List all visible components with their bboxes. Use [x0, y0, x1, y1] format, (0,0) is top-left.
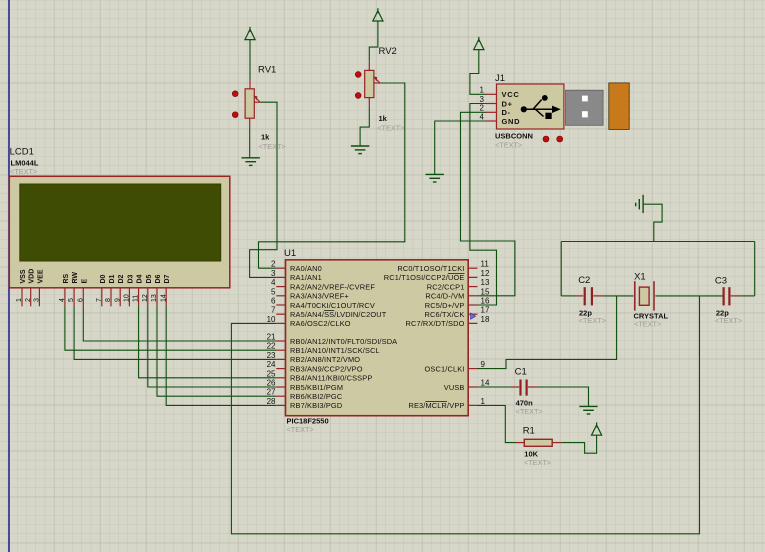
svg-text:9: 9 — [481, 360, 486, 369]
svg-text:C3: C3 — [715, 276, 727, 287]
svg-text:6: 6 — [271, 297, 276, 306]
svg-text:RC6/TX/CK: RC6/TX/CK — [425, 310, 465, 319]
svg-text:11: 11 — [133, 295, 140, 302]
svg-text:D4: D4 — [137, 274, 144, 283]
wire crystal to U1 OSC1 — [477, 296, 616, 369]
svg-text:D2: D2 — [118, 274, 125, 283]
LCD pin stub 11 — [138, 288, 140, 307]
svg-text:RB4/AN11/KBI0/CSSPP: RB4/AN11/KBI0/CSSPP — [290, 374, 372, 383]
LCD pin stub 7 — [101, 288, 103, 307]
svg-text:4: 4 — [271, 278, 276, 287]
svg-text:D5: D5 — [146, 274, 153, 283]
svg-text:RB7/KBI3/PGD: RB7/KBI3/PGD — [290, 401, 342, 410]
svg-text:RC0/T1OSO/T1CKI: RC0/T1OSO/T1CKI — [397, 264, 464, 273]
svg-text:RA1/AN1: RA1/AN1 — [290, 273, 322, 282]
wire ground jog to top rail — [643, 204, 662, 241]
svg-text:RB2/AN8/INT2/VMO: RB2/AN8/INT2/VMO — [290, 355, 360, 364]
svg-text:<TEXT>: <TEXT> — [715, 316, 742, 325]
crystal X1 — [635, 281, 654, 310]
U1 pin 15 RC4/D-/VM — [468, 295, 477, 297]
U1 pin 26 RB5/KBI1/PGM — [276, 386, 285, 388]
wire RV2 wiper to U1 RA0 — [259, 83, 405, 268]
C2 left pin stub — [575, 295, 583, 297]
capacitor C1 — [521, 380, 527, 396]
LCD pin stub 1 — [21, 288, 23, 307]
wire U1 VUSB to C1 — [477, 386, 511, 388]
svg-text:1: 1 — [481, 397, 486, 406]
C1 left pin stub — [511, 386, 519, 388]
U1 pin 7 RA5/AN4/SS/LVDIN/C2OUT — [276, 313, 285, 315]
LCD LCD1 body — [9, 176, 230, 287]
svg-text:VEE: VEE — [37, 269, 44, 283]
svg-text:3: 3 — [34, 298, 41, 302]
svg-text:RA2/AN2/VREF-/CVREF: RA2/AN2/VREF-/CVREF — [290, 282, 375, 291]
U1 pin 21 RB0/AN12/INT0/FLT0/SDI/SDA — [276, 340, 285, 342]
J1 red dots — [543, 136, 549, 142]
svg-text:13: 13 — [151, 294, 158, 302]
LCD screen — [20, 184, 221, 261]
U1 pin 27 RB6/KBI2/PGC — [276, 395, 285, 397]
svg-text:RA6/OSC2/CLKO: RA6/OSC2/CLKO — [290, 319, 351, 328]
RV2 wiper pin stub — [374, 82, 381, 84]
LCD pin stub 5 — [73, 288, 75, 307]
svg-text:22: 22 — [267, 342, 276, 351]
svg-text:23: 23 — [267, 351, 276, 360]
wire crystal top rail — [561, 241, 755, 243]
svg-text:7: 7 — [96, 298, 103, 302]
LCD pin stub 3 — [38, 288, 40, 307]
svg-text:D3: D3 — [127, 274, 134, 283]
svg-text:27: 27 — [267, 388, 276, 397]
LCD pin stub 9 — [119, 288, 121, 307]
wire to C2 — [561, 295, 575, 297]
wire LCD D7 to U1 RB7 — [166, 306, 276, 405]
wire RV1 wiper to U1 RA1 — [250, 102, 277, 277]
LCD pin stub 10 — [128, 288, 130, 307]
connector J1 body — [497, 84, 564, 129]
svg-text:D+: D+ — [502, 99, 513, 108]
svg-text:9: 9 — [114, 298, 121, 302]
wire C3 to right drop — [740, 295, 755, 297]
U1 pin 5 RA3/AN3/VREF+ — [276, 295, 285, 297]
U1 pin 24 RB3/AN9/CCP2/VPO — [276, 368, 285, 370]
wire LCD E to U1 RB0 — [83, 306, 276, 341]
svg-text:<TEXT>: <TEXT> — [259, 142, 286, 151]
svg-text:1: 1 — [16, 298, 23, 302]
svg-text:26: 26 — [267, 379, 276, 388]
U1 pin 10 RA6/OSC2/CLKO — [276, 322, 285, 324]
RV1 wiper arrow — [255, 96, 260, 102]
svg-text:15: 15 — [481, 287, 490, 296]
U1 pin 4 RA2/AN2/VREF-/CVREF — [276, 286, 285, 288]
svg-text:C1: C1 — [515, 367, 527, 378]
svg-text:RW: RW — [72, 272, 79, 284]
svg-text:7: 7 — [271, 306, 276, 315]
RV2 terminal dots — [355, 72, 361, 78]
RV1 wiper pin stub — [254, 101, 260, 103]
power arrow above RV2 — [373, 8, 383, 21]
svg-text:RB3/AN9/CCP2/VPO: RB3/AN9/CCP2/VPO — [290, 364, 363, 373]
svg-text:D7: D7 — [164, 274, 171, 283]
U1 pin 13 RC2/CCP1 — [468, 286, 477, 288]
svg-text:E: E — [81, 279, 88, 284]
wire LCD RW to U1 RB2 — [74, 306, 276, 359]
svg-text:RC4/D-/VM: RC4/D-/VM — [425, 292, 464, 301]
rotated ground near top rail — [636, 195, 643, 213]
ground below RV1 — [242, 158, 260, 166]
svg-text:<TEXT>: <TEXT> — [377, 124, 404, 133]
svg-text:RA0/AN0: RA0/AN0 — [290, 264, 322, 273]
LCD pin stub 4 — [64, 288, 66, 307]
capacitor C2 — [585, 287, 592, 305]
wire LCD D4 to U1 RB4 — [139, 306, 277, 378]
RV1 top pin stub — [249, 80, 251, 89]
wire C1 to ground — [537, 387, 589, 406]
wire RV1 top — [249, 40, 251, 80]
svg-text:RB1/AN10/INT1/SCK/SCL: RB1/AN10/INT1/SCK/SCL — [290, 346, 380, 355]
svg-text:<TEXT>: <TEXT> — [495, 140, 522, 149]
svg-text:<TEXT>: <TEXT> — [10, 167, 37, 176]
svg-text:<TEXT>: <TEXT> — [516, 407, 543, 416]
U1 pin 28 RB7/KBI3/PGD — [276, 404, 285, 406]
svg-text:D0: D0 — [100, 274, 107, 283]
LCD pin stub 2 — [30, 288, 32, 307]
LCD pin stub 13 — [156, 288, 158, 307]
LCD pin stub 12 — [147, 288, 149, 307]
U1 pin 17 RC6/TX/CK — [468, 313, 477, 315]
svg-text:D6: D6 — [155, 274, 162, 283]
svg-text:11: 11 — [481, 260, 490, 269]
RV2 top pin stub — [368, 61, 370, 70]
svg-text:<TEXT>: <TEXT> — [524, 458, 551, 467]
svg-text:5: 5 — [68, 298, 75, 302]
svg-text:RA3/AN3/VREF+: RA3/AN3/VREF+ — [290, 292, 349, 301]
potentiometer RV2 body — [365, 70, 374, 97]
svg-text:RB6/KBI2/PGC: RB6/KBI2/PGC — [290, 392, 343, 401]
U1 pin 16 RC5/D+/VP — [468, 304, 477, 306]
U1 pin 9 OSC1/CLKI — [468, 368, 477, 370]
svg-text:J1: J1 — [495, 73, 505, 84]
svg-text:RE3/MCLR/VPP: RE3/MCLR/VPP — [408, 401, 464, 410]
svg-text:2: 2 — [480, 104, 485, 113]
U1 pin 11 RC0/T1OSO/T1CKI — [468, 267, 477, 269]
svg-text:VUSB: VUSB — [444, 383, 465, 392]
svg-text:10: 10 — [267, 315, 276, 324]
RV1 bottom pin stub — [249, 118, 251, 129]
potentiometer RV1 body — [245, 89, 254, 118]
wire crystal to U1 OSC2 (bottom run) — [231, 296, 699, 534]
C2 right pin stub — [593, 295, 603, 297]
svg-text:VSS: VSS — [20, 269, 27, 283]
svg-text:25: 25 — [267, 369, 276, 378]
svg-text:3: 3 — [271, 269, 276, 278]
svg-text:U1: U1 — [284, 248, 296, 259]
svg-text:14: 14 — [160, 294, 167, 302]
RV1 terminal dots — [232, 91, 238, 97]
wire RV2 top — [369, 21, 378, 61]
blue marker on U1 pin 17 — [471, 313, 476, 319]
svg-text:13: 13 — [481, 278, 490, 287]
power arrow above J1 VCC — [474, 37, 484, 50]
sheet border (blue) — [8, 0, 10, 552]
svg-text:8: 8 — [105, 298, 112, 302]
USB metal shell — [566, 90, 604, 125]
J1 pin stub 1 — [486, 93, 497, 95]
wire J1 GND to ground — [435, 121, 486, 174]
svg-text:10: 10 — [124, 294, 131, 302]
wire LCD D6 to U1 RB6 — [157, 306, 276, 396]
svg-text:5: 5 — [271, 287, 276, 296]
svg-text:D1: D1 — [109, 274, 116, 283]
U1 pin 23 RB2/AN8/INT2/VMO — [276, 358, 285, 360]
svg-text:17: 17 — [481, 306, 490, 315]
svg-text:GND: GND — [502, 117, 521, 126]
microcontroller U1 body — [286, 260, 469, 416]
svg-text:16: 16 — [481, 297, 490, 306]
LCD pin stub 6 — [82, 288, 84, 307]
wire top rail left drop — [560, 242, 562, 296]
wire RV1 to ground — [249, 130, 251, 158]
ground below RV2 — [351, 146, 369, 154]
USB trident symbol — [527, 100, 553, 117]
wire LCD D5 to U1 RB5 — [148, 306, 276, 387]
resistor R1 — [524, 439, 552, 446]
U1 pin 25 RB4/AN11/KBI0/CSSPP — [276, 377, 285, 379]
svg-text:VCC: VCC — [502, 90, 520, 99]
J1 pin stub 4 — [486, 120, 497, 122]
wire top rail right drop — [754, 242, 756, 296]
RV2 wiper arrow — [374, 77, 379, 83]
RV2 bottom pin stub — [368, 98, 370, 107]
wire J1 VCC to power — [470, 50, 486, 95]
wire C2 to X1 — [603, 295, 634, 297]
J1 pin stub 3 — [486, 103, 497, 105]
svg-text:RV2: RV2 — [379, 46, 397, 57]
U1 pin 3 RA1/AN1 — [276, 276, 285, 278]
svg-text:RC2/CCP1: RC2/CCP1 — [427, 282, 465, 291]
U1 pin 22 RB1/AN10/INT1/SCK/SCL — [276, 349, 285, 351]
svg-text:3: 3 — [480, 95, 485, 104]
svg-text:D-: D- — [502, 108, 511, 117]
svg-text:28: 28 — [267, 397, 276, 406]
svg-text:6: 6 — [77, 298, 84, 302]
svg-text:1: 1 — [480, 86, 485, 95]
svg-text:2: 2 — [271, 260, 276, 269]
C3 right pin stub — [731, 295, 740, 297]
U1 pin 12 RC1/T1OSI/CCP2/UOE — [468, 276, 477, 278]
svg-text:<TEXT>: <TEXT> — [287, 425, 314, 434]
wire RV2 to ground — [360, 107, 369, 146]
capacitor C3 — [724, 287, 730, 305]
svg-text:RC1/T1OSI/CCP2/UOE: RC1/T1OSI/CCP2/UOE — [384, 273, 465, 282]
svg-text:X1: X1 — [634, 272, 646, 283]
power arrow right of R1 — [592, 422, 602, 435]
power arrow above RV1 — [245, 27, 255, 40]
USB plug (orange) — [609, 83, 629, 129]
svg-text:RA5/AN4/SS/LVDIN/C2OUT: RA5/AN4/SS/LVDIN/C2OUT — [290, 310, 387, 319]
svg-text:4: 4 — [480, 112, 485, 121]
LCD pin stub 8 — [110, 288, 112, 307]
wire LCD RS to U1 RB1 — [65, 306, 276, 350]
svg-text:LCD1: LCD1 — [10, 147, 34, 158]
svg-text:<TEXT>: <TEXT> — [579, 316, 606, 325]
wire J1 D- to U1 RC4 — [461, 112, 515, 295]
J1 pin stub 2 — [486, 111, 497, 113]
LCD pin stub 14 — [165, 288, 167, 307]
U1 pin 2 RA0/AN0 — [276, 267, 285, 269]
svg-text:18: 18 — [481, 315, 490, 324]
svg-text:1k: 1k — [261, 133, 270, 142]
U1 pin 18 RC7/RX/DT/SDO — [468, 322, 477, 324]
U1 pin 1 RE3/MCLR/VPP — [468, 404, 477, 406]
R1 left pin stub — [515, 442, 524, 444]
svg-text:1k: 1k — [379, 114, 388, 123]
svg-text:RV1: RV1 — [258, 65, 276, 76]
wire R1 to power — [562, 435, 596, 453]
ground below J1 — [426, 174, 444, 182]
svg-text:21: 21 — [267, 333, 276, 342]
svg-text:RA4/T0CKI/C1OUT/RCV: RA4/T0CKI/C1OUT/RCV — [290, 301, 375, 310]
svg-text:OSC1/CLKI: OSC1/CLKI — [425, 364, 465, 373]
wire X1 to C3 — [655, 295, 723, 297]
svg-text:14: 14 — [481, 379, 490, 388]
svg-text:12: 12 — [481, 269, 490, 278]
svg-text:RS: RS — [63, 273, 70, 283]
svg-text:<TEXT>: <TEXT> — [634, 320, 661, 329]
svg-text:RC7/RX/DT/SDO: RC7/RX/DT/SDO — [405, 319, 464, 328]
svg-text:4: 4 — [59, 298, 66, 302]
wire J1 D+ to U1 RC5 — [470, 104, 497, 306]
wire U1 MCLR to R1 — [477, 405, 515, 442]
svg-text:RC5/D+/VP: RC5/D+/VP — [425, 301, 465, 310]
svg-text:RB0/AN12/INT0/FLT0/SDI/SDA: RB0/AN12/INT0/FLT0/SDI/SDA — [290, 337, 397, 346]
C1 right pin stub — [528, 386, 537, 388]
svg-text:2: 2 — [25, 298, 32, 302]
ground right of C1 — [579, 406, 597, 414]
R1 right pin stub — [552, 442, 562, 444]
svg-text:24: 24 — [267, 360, 276, 369]
U1 pin 6 RA4/T0CKI/C1OUT/RCV — [276, 304, 285, 306]
svg-text:VDD: VDD — [29, 269, 36, 284]
svg-text:R1: R1 — [523, 426, 535, 437]
svg-text:C2: C2 — [578, 275, 590, 286]
svg-text:RB5/KBI1/PGM: RB5/KBI1/PGM — [290, 383, 343, 392]
svg-text:12: 12 — [142, 294, 149, 302]
svg-text:470n: 470n — [516, 398, 534, 407]
U1 pin 14 VUSB — [468, 386, 477, 388]
